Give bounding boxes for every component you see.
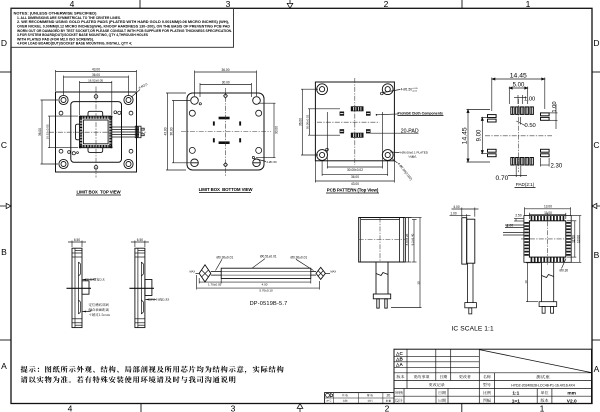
svg-text:2: 2	[385, 404, 390, 412]
callout 2-Ø1.50	[255, 159, 267, 162]
svg-text:PCB PATTERN (Top View): PCB PATTERN (Top View)	[327, 188, 379, 193]
dim 36.00 left	[41, 100, 59, 164]
top view cavity contact band	[80, 116, 112, 147]
top view left latch	[76, 124, 80, 140]
svg-text:36.00: 36.00	[92, 73, 100, 77]
qfp stem	[539, 262, 557, 313]
top view top latch	[88, 111, 103, 116]
svg-text:A: A	[594, 364, 600, 374]
dim 2.30	[541, 158, 550, 167]
pin left shaft	[211, 271, 221, 273]
svg-text:14.45: 14.45	[462, 127, 469, 144]
dim 1.00 top pad pitch	[514, 95, 527, 104]
svg-text:1: 1	[526, 0, 531, 9]
side view left centerline	[67, 287, 92, 289]
dim 36.00 top	[64, 76, 129, 96]
top view outer body	[56, 92, 137, 172]
svg-text:Ø0.30±0.01: Ø0.30±0.01	[217, 255, 234, 259]
svg-text:43.00: 43.00	[351, 182, 359, 186]
dim 13.00 qfp right	[571, 216, 581, 263]
bottom center mark arrow	[297, 404, 303, 412]
dim 30.00 right of bottom view	[256, 103, 276, 158]
side view left knob	[82, 281, 89, 294]
pcb centerlines	[317, 121, 380, 123]
svg-text:DP-0519B-5.7: DP-0519B-5.7	[250, 301, 288, 307]
svg-text:Ø0.30±0.01: Ø0.30±0.01	[291, 255, 308, 259]
svg-text:36.00: 36.00	[38, 128, 42, 136]
cavity corner pins	[79, 116, 113, 149]
svg-text:V2.0: V2.0	[567, 398, 577, 404]
pin body	[221, 268, 311, 278]
svg-text:1.00: 1.00	[552, 101, 558, 112]
diagonal cell	[479, 350, 591, 373]
svg-text:1.70±0.05: 1.70±0.05	[208, 282, 222, 286]
note pin travel	[145, 299, 149, 301]
zone tick bottom 2	[461, 404, 463, 412]
pcb outline	[315, 82, 394, 161]
svg-text:2.50: 2.50	[515, 213, 521, 217]
bottom view corner holes	[191, 97, 261, 167]
zone numbers bottom	[68, 404, 545, 412]
svg-text:IC SCALE 1:1: IC SCALE 1:1	[452, 326, 494, 333]
svg-text:10: 10	[524, 280, 528, 284]
svg-text:4: 4	[68, 404, 73, 412]
zone tick top 1	[139, 0, 141, 8]
qfp leads left	[524, 222, 529, 256]
ic side body	[467, 219, 475, 263]
dim 9.00 vertical	[481, 118, 487, 154]
pin left crown tip	[199, 265, 211, 282]
dim 36.00 left pcb	[301, 89, 318, 155]
svg-text:11.00: 11.00	[572, 235, 576, 243]
dim 1.00 qfp left lead	[505, 225, 524, 228]
notes box	[11, 8, 234, 47]
svg-text:2-Ø1.50: 2-Ø1.50	[267, 160, 278, 164]
callout 4-Ø6.00 plated	[390, 151, 399, 154]
side view right knob	[145, 280, 152, 296]
svg-text:LIMIT BOX BOTTOM VIEW: LIMIT BOX BOTTOM VIEW	[199, 187, 254, 192]
qfp outer outline	[524, 216, 571, 263]
svg-text:30.00±0.02: 30.00±0.02	[347, 168, 363, 172]
top view mid-edge holes	[59, 95, 133, 169]
dim 6.50 right view	[131, 241, 149, 248]
top view cavity outline	[80, 116, 112, 148]
pcb corner plated holes	[317, 84, 393, 161]
zone numbers top	[70, 0, 531, 9]
zone tick right 2	[592, 339, 600, 341]
svg-text:4-Ø1.50: 4-Ø1.50	[401, 88, 413, 92]
dim 4.00 ic side	[452, 208, 479, 217]
dim 36.00 bottom	[322, 161, 388, 176]
svg-text:1:1: 1:1	[512, 391, 519, 397]
front view body	[359, 218, 406, 263]
leader 20-PAD	[371, 132, 419, 134]
dim 16.52 top	[80, 81, 112, 115]
note slot depth 3 lines	[83, 311, 87, 313]
svg-text:5.00: 5.00	[513, 83, 525, 89]
svg-text:C: C	[593, 140, 599, 150]
pin right crown tip	[316, 267, 325, 279]
zone tick left 1	[0, 71, 11, 73]
dim 1.70	[199, 278, 221, 284]
pcb pad rows striped	[351, 106, 364, 111]
svg-text:LIMIT BOX TOP VIEW: LIMIT BOX TOP VIEW	[76, 190, 121, 195]
zone tick left 2	[0, 339, 11, 341]
svg-text:8.2±8.40: 8.2±8.40	[411, 233, 415, 245]
dim 1.00 ic side	[450, 214, 471, 218]
svg-text:0.50: 0.50	[525, 123, 536, 129]
dim 5.00	[509, 87, 527, 105]
svg-text:43.00: 43.00	[92, 68, 100, 72]
ic side stem	[465, 263, 477, 314]
note slot width	[83, 279, 87, 281]
pad detail top row	[511, 107, 534, 165]
top view guide pin holes	[68, 111, 121, 155]
svg-text:30.00±0.02: 30.00±0.02	[306, 114, 310, 129]
dim 11.00 qfp right	[567, 221, 576, 257]
dim 43.00 top	[56, 70, 137, 91]
projection symbol	[326, 393, 330, 397]
svg-text:4.00: 4.00	[453, 205, 459, 209]
svg-text:9.00: 9.00	[477, 129, 483, 141]
svg-text:1.00: 1.00	[450, 211, 456, 215]
svg-text:30.00: 30.00	[275, 126, 279, 134]
bottom view small pin holes	[199, 103, 201, 105]
bottom view center pads	[213, 117, 241, 144]
bottom view centerlines	[181, 131, 271, 133]
svg-text:HYDZ-20240628-LCC48-P1-16.4X16: HYDZ-20240628-LCC48-P1-16.4X16.4X4	[511, 383, 575, 387]
qfp leads top	[531, 216, 565, 221]
dim 4.00	[221, 279, 311, 284]
dim 14.45 horizontal	[492, 78, 545, 112]
dim 36.00 left of bottom view	[172, 101, 190, 163]
revision table grid	[394, 349, 592, 403]
svg-text:2.30: 2.30	[551, 164, 563, 170]
notes text	[14, 12, 233, 46]
top view bottom latch	[88, 148, 103, 153]
zone tick top 2	[461, 0, 463, 8]
svg-text:Ø0.51±0.01: Ø0.51±0.01	[260, 255, 277, 259]
callout R0.30	[562, 259, 567, 269]
leader prohibit components	[376, 114, 378, 116]
svg-text:-0.02: -0.02	[412, 90, 418, 92]
svg-text:36.00: 36.00	[351, 175, 359, 179]
pcb side pads	[340, 112, 345, 116]
svg-text:13.00: 13.00	[544, 205, 552, 209]
callout 4-M2.0	[132, 90, 141, 98]
dim 13.00 qfp top	[525, 207, 571, 216]
left center mark arrow	[0, 203, 11, 208]
svg-text:36.00: 36.00	[222, 68, 230, 72]
svg-text:B: B	[594, 250, 600, 260]
top view inner cover	[71, 102, 122, 163]
zone letters left	[1, 38, 7, 371]
pad detail centerlines	[485, 135, 552, 137]
front view stem	[373, 262, 390, 308]
svg-text:36.00: 36.00	[170, 127, 174, 135]
dim 14.45 vertical	[467, 110, 491, 163]
svg-text:△C: △C	[395, 351, 404, 356]
svg-text:mm: mm	[567, 392, 576, 397]
dim 43.00 left of bottom view	[166, 93, 186, 170]
dim 6.50 left view	[68, 241, 86, 248]
dim 10 stem left	[526, 263, 541, 302]
svg-text:5.70±0.10: 5.70±0.10	[259, 289, 273, 293]
side view left body	[72, 248, 82, 327]
svg-text:0.70: 0.70	[496, 175, 509, 182]
zone tick bottom 1	[140, 404, 142, 412]
svg-text:30.00: 30.00	[222, 81, 230, 85]
svg-text:D: D	[593, 38, 599, 48]
svg-text:4-Ø6.00±0.1 PLATED: 4-Ø6.00±0.1 PLATED	[399, 151, 429, 155]
dim 16.52 left	[48, 116, 78, 148]
top view corner screw holes	[59, 95, 133, 168]
title values	[536, 375, 549, 379]
dim 11.00 qfp top	[529, 213, 565, 219]
dim 30.00±0.02 left pcb	[308, 109, 340, 135]
svg-text:Prohibit Cloth Components: Prohibit Cloth Components	[398, 111, 444, 115]
svg-text:C: C	[1, 140, 7, 150]
front view centerlines	[359, 239, 406, 241]
svg-text:1.00: 1.00	[524, 97, 535, 103]
svg-text:D: D	[1, 38, 7, 48]
top center mark arrow	[287, 0, 293, 8]
pad detail side pads	[488, 113, 550, 157]
svg-text:16.52±0.05: 16.52±0.05	[46, 124, 50, 139]
svg-text:△A: △A	[395, 362, 404, 367]
svg-text:16.52±0.05: 16.52±0.05	[88, 79, 103, 83]
revision deltas	[395, 351, 404, 367]
svg-text:MAX: MAX	[331, 270, 337, 274]
ic side thin plate	[462, 218, 467, 264]
top view centerlines	[49, 131, 147, 133]
svg-text:1: 1	[540, 404, 545, 412]
svg-text:A: A	[1, 361, 7, 371]
callout 4-Ø2.50 diagonal	[391, 158, 398, 164]
bottom view body	[187, 93, 264, 170]
svg-text:36.00: 36.00	[299, 118, 303, 126]
svg-text:20: 20	[387, 394, 391, 398]
svg-text:11.00: 11.00	[544, 211, 552, 215]
title block outline	[394, 349, 592, 403]
qfp leads right	[566, 222, 571, 256]
svg-text:13.00: 13.00	[577, 235, 581, 243]
zone letters right	[593, 38, 599, 374]
svg-text:MAX: MAX	[190, 270, 196, 274]
qfp body	[529, 221, 565, 257]
front view right dims	[406, 218, 412, 263]
svg-text:8.0±8.20: 8.0±8.20	[405, 233, 409, 245]
svg-text:4.00: 4.00	[262, 282, 268, 286]
dim 30.00 top	[200, 83, 252, 97]
svg-text:1.00: 1.00	[507, 224, 513, 228]
svg-text:6.50: 6.50	[137, 238, 143, 242]
right center mark arrow	[592, 203, 600, 208]
svg-text:Ø0.30: Ø0.30	[560, 269, 569, 273]
svg-text:1=1: 1=1	[512, 398, 520, 404]
lever arm	[112, 126, 144, 138]
svg-text:6.50: 6.50	[74, 238, 80, 242]
bottom view mid-edge holes	[189, 110, 261, 153]
dim 36.00 top	[195, 71, 257, 97]
svg-text:30: 30	[417, 281, 421, 285]
svg-text:3: 3	[231, 404, 236, 412]
header row labels	[395, 375, 548, 402]
svg-text:B: B	[1, 247, 7, 257]
svg-text:△B: △B	[395, 357, 404, 362]
svg-text:PAD(2:1): PAD(2:1)	[516, 182, 535, 187]
dim 30.00±0.02 bottom	[327, 112, 382, 169]
dim 1.00 right vertical	[550, 104, 558, 129]
dim 0.50	[516, 117, 525, 126]
pcb small locating holes	[381, 92, 384, 95]
top view cavity inner	[83, 120, 108, 144]
zone tick right 1	[592, 71, 600, 73]
side view right body	[135, 248, 145, 327]
dim 2.50 qfp left	[514, 219, 524, 222]
side view right centerline	[129, 287, 154, 289]
svg-text:43.00: 43.00	[164, 127, 168, 135]
dim 0.70	[508, 166, 527, 177]
svg-text:3: 3	[226, 0, 231, 9]
svg-text:4.FOR LOAD BOARD(DUT)/SOCKET B: 4.FOR LOAD BOARD(DUT)/SOCKET BASE MOUNTI…	[17, 42, 132, 46]
dim 43.00 bottom	[315, 161, 394, 183]
svg-text:2: 2	[384, 0, 389, 9]
callout 4-Ø1.50 top	[383, 90, 400, 93]
pin right shaft	[311, 271, 316, 273]
dim 5.70 overall	[197, 275, 320, 290]
svg-text:4: 4	[70, 0, 75, 9]
svg-text:14.45: 14.45	[510, 72, 527, 79]
svg-text:20-PAD: 20-PAD	[401, 128, 419, 134]
qfp centerlines	[521, 238, 574, 240]
qfp leads bottom	[531, 257, 565, 262]
